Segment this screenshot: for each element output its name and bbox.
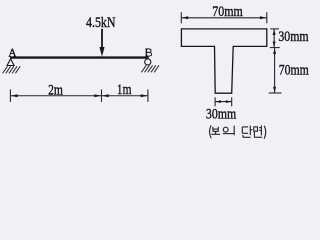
hangul MYEON bbox=[254, 127, 258, 131]
open paren bbox=[210, 125, 212, 138]
svg-text:4.5kN: 4.5kN bbox=[86, 15, 116, 31]
span dimension ticks bbox=[10, 89, 148, 102]
svg-text:1m: 1m bbox=[117, 82, 132, 98]
hangul BO bbox=[212, 127, 214, 132]
beam AB bbox=[10, 56, 149, 58]
node B label bbox=[145, 49, 151, 56]
web height dimension 70mm bbox=[269, 48, 282, 93]
svg-text:2m: 2m bbox=[48, 82, 63, 98]
pin support at A bbox=[7, 59, 14, 66]
top width dimension 70mm bbox=[181, 12, 266, 23]
roller support at B bbox=[145, 59, 151, 65]
flange thickness dimension 30mm bbox=[270, 29, 280, 48]
web width dimension 30mm bbox=[215, 97, 232, 106]
hangul UI bbox=[223, 127, 228, 132]
dimension arrowheads bbox=[11, 94, 148, 97]
svg-text:30mm: 30mm bbox=[206, 106, 237, 122]
roller support hatching bbox=[141, 65, 159, 72]
caption (boui danmyeon) drawn hangul bbox=[210, 125, 266, 138]
svg-text:70mm: 70mm bbox=[212, 4, 243, 20]
svg-text:30mm: 30mm bbox=[278, 29, 308, 45]
T cross-section outline bbox=[181, 29, 266, 93]
hangul DAN bbox=[242, 126, 248, 128]
close paren bbox=[264, 126, 266, 139]
load arrow 4.5kN bbox=[101, 29, 103, 49]
span dimension line bbox=[10, 95, 148, 97]
node A label bbox=[9, 49, 17, 57]
pin support hatching bbox=[3, 66, 21, 73]
svg-text:70mm: 70mm bbox=[279, 63, 309, 79]
